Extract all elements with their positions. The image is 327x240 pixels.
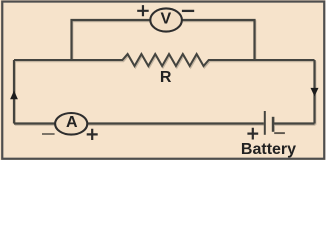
battery short plate (negative) [272,117,275,132]
svg-text:V: V [160,11,171,28]
wire middle run with resistor zigzag [14,54,315,66]
svg-text:R: R [160,69,172,86]
battery long plate (positive) [264,111,266,135]
battery minus terminal sign [274,132,285,134]
svg-text:Battery: Battery [241,141,296,158]
wire left vertical [13,60,15,124]
battery plus terminal sign [247,128,258,140]
ammeter minus terminal sign [42,133,55,135]
voltmeter V body [150,8,182,31]
wire voltmeter branch: left riser, top run, right riser [72,20,255,60]
voltmeter minus terminal sign [182,10,194,12]
voltmeter plus terminal sign [137,5,149,16]
current direction arrow (up, left side) [10,91,18,100]
ammeter A body [55,113,87,135]
wire right vertical [313,60,315,124]
svg-text:A: A [66,114,78,131]
wire bottom run [14,122,315,124]
ammeter plus terminal sign [87,129,98,140]
current direction arrow (down, right side) [311,88,319,97]
